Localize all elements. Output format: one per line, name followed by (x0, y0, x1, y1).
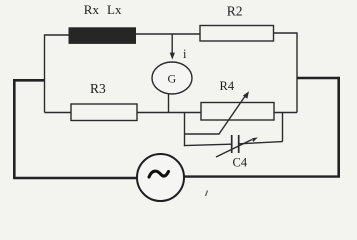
wire: thick outer right vertical (337, 77, 340, 177)
wire: right vertical (node B) (296, 32, 298, 112)
svg-text:R2: R2 (227, 4, 243, 19)
AC source (137, 154, 184, 201)
wire: bottom rail right segment (R4 to node B) (274, 112, 297, 114)
capacitor C4 right plate (238, 135, 240, 153)
resistor R4 (variable) (201, 103, 274, 121)
wire: thick outer bottom left (13, 177, 137, 179)
arrowhead of current i (170, 53, 175, 60)
wire: galvanometer to bottom rail (168, 94, 170, 113)
wire: C4 branch left horizontal (184, 144, 231, 145)
wire: thick source lead left (node A to outer loop) (13, 79, 44, 82)
svg-text:R3: R3 (90, 81, 106, 96)
wire: thick outer left vertical (13, 79, 16, 179)
wire: C4 branch left vertical drop (184, 113, 186, 147)
wire: left vertical (node A) (44, 34, 46, 112)
resistor R2 (200, 26, 274, 42)
wire: thick outer bottom right (184, 175, 340, 177)
variable arrow of C4 (216, 140, 252, 158)
wiper arrow of R4 (185, 96, 246, 135)
resistor R3 (71, 104, 137, 121)
arrowhead of R4 wiper (243, 91, 249, 98)
arrowhead of C4 arrow (252, 137, 258, 142)
wire: top rail middle segment (Rx to R2) (136, 33, 200, 35)
AC tilde symbol (149, 171, 169, 177)
wire: C4 branch right vertical rise (282, 113, 284, 142)
wire: bottom rail middle segment (R3 to node C junction) (137, 112, 201, 114)
svg-text:G: G (168, 72, 177, 86)
stray scan mark (apostrophe) (206, 191, 208, 197)
wire: galvanometer feed with current arrow i (171, 34, 173, 53)
svg-text:C4: C4 (233, 156, 248, 170)
capacitor C4 left plate (231, 135, 233, 153)
wire: thick source lead right (node B to outer loop) (297, 77, 339, 80)
wire: top rail left segment (node A to Rx) (45, 34, 70, 36)
galvanometer G (152, 62, 192, 94)
svg-text:i: i (183, 47, 187, 61)
svg-text:R4: R4 (220, 79, 235, 93)
wire: bottom rail left segment (node A to R3) (45, 112, 72, 114)
wire: C4 branch right horizontal (240, 142, 283, 144)
svg-text:Rx: Rx (84, 2, 100, 17)
svg-text:Lx: Lx (107, 2, 122, 17)
wire: top rail right segment (R2 to node B) (274, 32, 298, 34)
resistor Rx/Lx (filled black box) (69, 27, 137, 44)
